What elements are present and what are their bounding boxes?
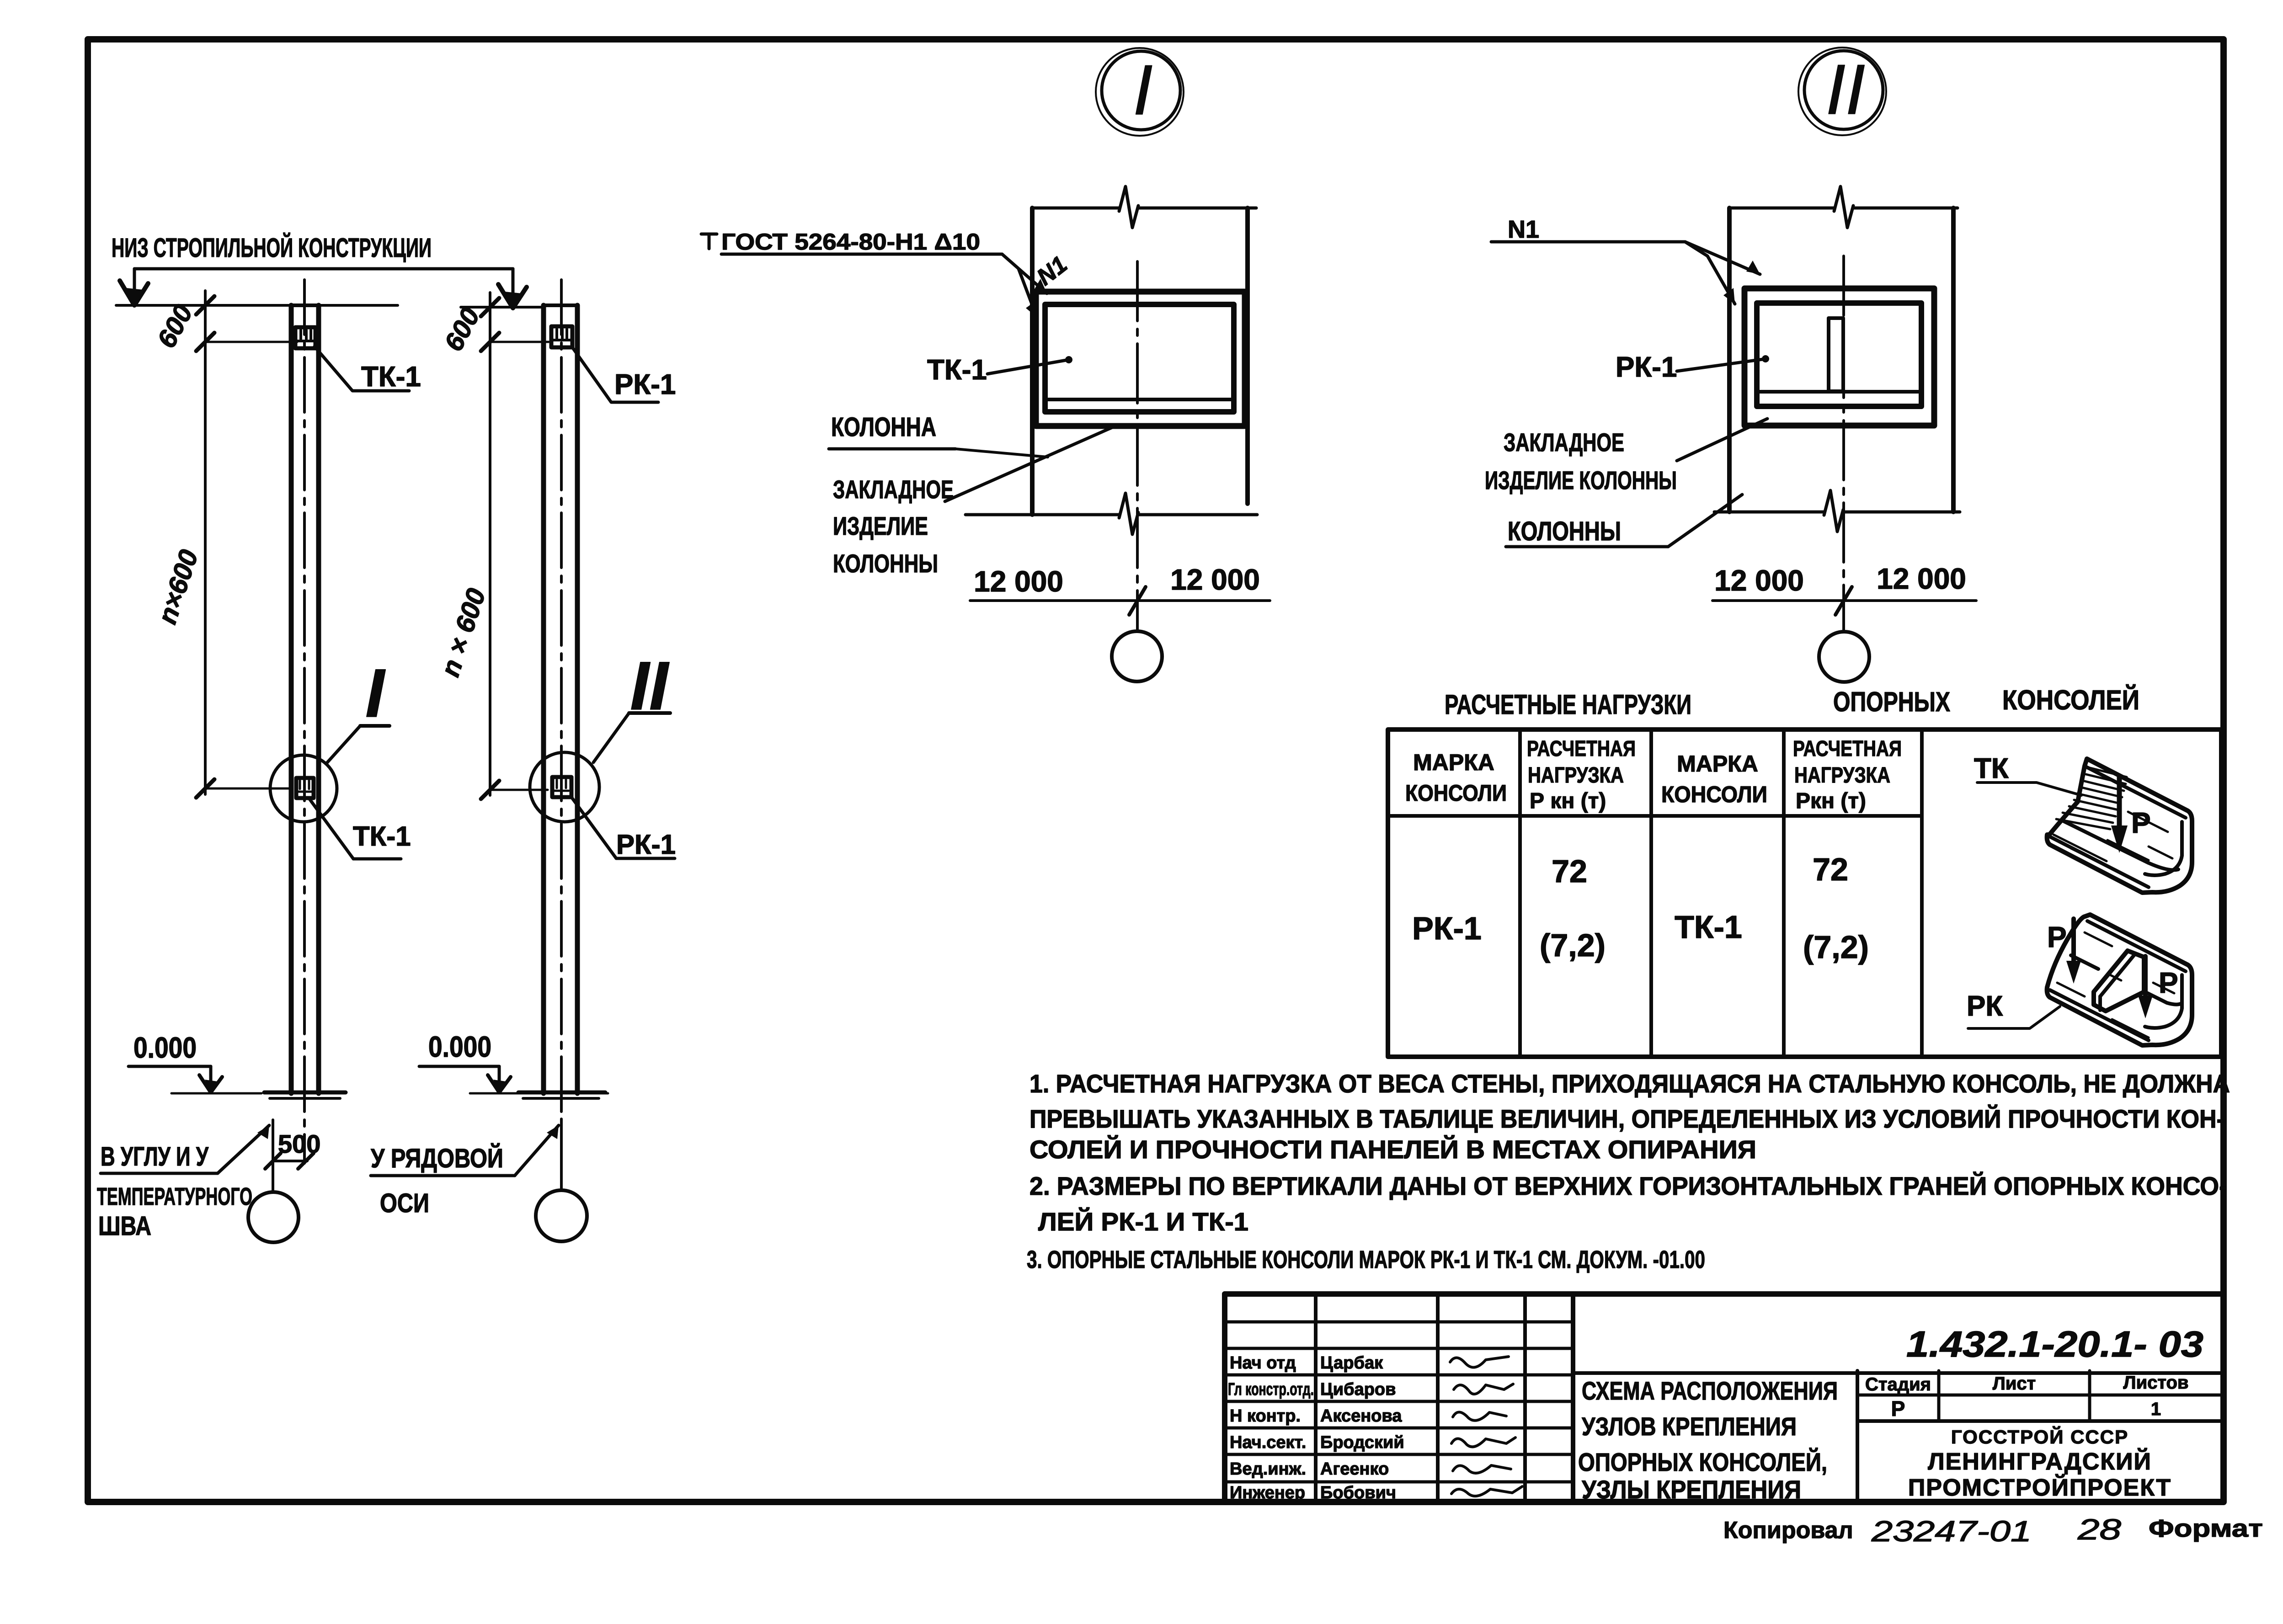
svg-text:ТК-1: ТК-1 bbox=[353, 821, 411, 852]
TK load arrow bbox=[2117, 777, 2122, 841]
PK isometric sketch bbox=[2047, 915, 2192, 1045]
centerline detail I bbox=[1136, 261, 1139, 631]
detail II column edges bbox=[1727, 208, 1732, 512]
level line top col2 bbox=[461, 306, 542, 309]
label У рядовой оси bbox=[371, 1144, 503, 1218]
svg-text:I: I bbox=[365, 655, 386, 731]
svg-text:ЛЕЙ РК-1 И ТК-1: ЛЕЙ РК-1 И ТК-1 bbox=[1038, 1207, 1248, 1236]
extension to lower node bbox=[205, 788, 290, 790]
0.000 col1 bbox=[133, 1031, 197, 1064]
axis dim 12000 / 12000 bbox=[970, 599, 1270, 602]
svg-text:ИЗДЕЛИЕ КОЛОННЫ: ИЗДЕЛИЕ КОЛОННЫ bbox=[1485, 466, 1677, 495]
svg-text:Копировал: Копировал bbox=[1723, 1517, 1853, 1544]
PK load arrows bbox=[2071, 919, 2076, 974]
detail I column edges bbox=[1030, 208, 1035, 515]
axis dim 12000 12000 II bbox=[1712, 599, 1976, 602]
svg-text:I: I bbox=[1133, 50, 1152, 129]
svg-text:РК-1: РК-1 bbox=[1616, 351, 1677, 383]
svg-text:3. ОПОРНЫЕ СТАЛЬНЫЕ КОНСОЛИ МА: 3. ОПОРНЫЕ СТАЛЬНЫЕ КОНСОЛИ МАРОК РК-1 И… bbox=[1027, 1246, 1705, 1273]
label Колонны II bbox=[1508, 516, 1621, 546]
svg-text:72: 72 bbox=[1813, 852, 1848, 887]
svg-text:УЗЛЫ КРЕПЛЕНИЯ: УЗЛЫ КРЕПЛЕНИЯ bbox=[1582, 1475, 1801, 1504]
PK rib bbox=[2094, 951, 2144, 1011]
detail circle I on col1 bbox=[270, 755, 337, 822]
svg-text:Инженер: Инженер bbox=[1230, 1483, 1305, 1502]
arrow right bbox=[498, 284, 527, 308]
PK rib slot bbox=[1829, 318, 1843, 391]
gosstroy bbox=[1908, 1426, 2171, 1501]
svg-text:НИЗ СТРОПИЛЬНОЙ КОНСТРУКЦИИ: НИЗ СТРОПИЛЬНОЙ КОНСТРУКЦИИ bbox=[112, 233, 432, 263]
console PK-1 front view bbox=[1757, 303, 1921, 406]
table data bbox=[1412, 852, 1869, 965]
svg-text:НАГРУЗКА: НАГРУЗКА bbox=[1794, 763, 1890, 788]
label TK-1 detail bbox=[927, 354, 987, 386]
TK label bbox=[1974, 753, 2009, 784]
label Закладное изделие колонны bbox=[833, 475, 954, 578]
PK label bbox=[1967, 990, 2003, 1022]
svg-text:1: 1 bbox=[2151, 1399, 2161, 1419]
svg-text:ГОСТ 5264-80-Н1 Δ10: ГОСТ 5264-80-Н1 Δ10 bbox=[721, 229, 980, 255]
svg-text:НАГРУЗКА: НАГРУЗКА bbox=[1528, 763, 1624, 788]
label PK-1 detail bbox=[1616, 351, 1677, 383]
TK isometric sketch bbox=[2047, 759, 2192, 893]
embedded plate detail I bbox=[1036, 292, 1245, 426]
axis below col2 bbox=[560, 1119, 563, 1190]
grid circle col1 bbox=[248, 1192, 299, 1242]
TK hatching bbox=[2054, 768, 2172, 879]
svg-text:РК: РК bbox=[1967, 990, 2003, 1022]
svg-text:УЗЛОВ КРЕПЛЕНИЯ: УЗЛОВ КРЕПЛЕНИЯ bbox=[1582, 1412, 1797, 1441]
roles and names bbox=[1228, 1353, 1404, 1502]
svg-text:23247-01: 23247-01 bbox=[1871, 1515, 2032, 1548]
svg-text:Лист: Лист bbox=[1993, 1374, 2036, 1394]
svg-text:У РЯДОВОЙ: У РЯДОВОЙ bbox=[371, 1144, 503, 1173]
svg-text:Листов: Листов bbox=[2123, 1373, 2189, 1393]
svg-text:2. РАЗМЕРЫ ПО ВЕРТИКАЛИ ДАНЫ О: 2. РАЗМЕРЫ ПО ВЕРТИКАЛИ ДАНЫ ОТ ВЕРХНИХ … bbox=[1029, 1171, 2227, 1200]
svg-text:ПРЕВЫШАТЬ УКАЗАННЫХ В ТАБЛИЦЕ: ПРЕВЫШАТЬ УКАЗАННЫХ В ТАБЛИЦЕ ВЕЛИЧИН, О… bbox=[1029, 1104, 2224, 1133]
svg-text:РК-1: РК-1 bbox=[616, 829, 676, 860]
svg-text:КОНСОЛИ: КОНСОЛИ bbox=[1405, 780, 1507, 806]
svg-text:12 000: 12 000 bbox=[1714, 564, 1804, 597]
svg-text:МАРКА: МАРКА bbox=[1413, 750, 1494, 775]
label II bbox=[630, 647, 670, 724]
svg-text:ЗАКЛАДНОЕ: ЗАКЛАДНОЕ bbox=[833, 475, 954, 504]
ticks col1 bbox=[196, 296, 214, 314]
svg-text:ТК: ТК bbox=[1974, 753, 2009, 784]
0.000 col2 bbox=[428, 1030, 491, 1063]
label TK-1 bottom bbox=[353, 821, 411, 852]
PK hatch bbox=[2057, 932, 2174, 1038]
axis line col1 below ground bbox=[272, 1120, 274, 1192]
svg-text:Гл констр.отд.: Гл констр.отд. bbox=[1228, 1380, 1314, 1399]
console TK-1 front view bbox=[1045, 304, 1234, 412]
500 dim bbox=[273, 1160, 307, 1162]
svg-text:12 000: 12 000 bbox=[1170, 563, 1260, 596]
svg-text:72: 72 bbox=[1552, 853, 1587, 889]
left section rows bbox=[1225, 1320, 1573, 1324]
svg-text:Вед.инж.: Вед.инж. bbox=[1230, 1459, 1306, 1479]
svg-text:В УГЛУ И У: В УГЛУ И У bbox=[101, 1142, 209, 1171]
svg-text:Р: Р bbox=[2131, 806, 2151, 839]
svg-text:РАСЧЕТНЫЕ НАГРУЗКИ: РАСЧЕТНЫЕ НАГРУЗКИ bbox=[1445, 689, 1691, 720]
svg-text:КОЛОННЫ: КОЛОННЫ bbox=[833, 549, 938, 578]
stadia list listov bbox=[1865, 1373, 2189, 1421]
svg-text:РАСЧЕТНАЯ: РАСЧЕТНАЯ bbox=[1527, 737, 1636, 761]
svg-text:ОПОРНЫХ КОНСОЛЕЙ,: ОПОРНЫХ КОНСОЛЕЙ, bbox=[1578, 1448, 1827, 1476]
svg-text:ТК-1: ТК-1 bbox=[1675, 909, 1742, 945]
svg-text:КОНСОЛИ: КОНСОЛИ bbox=[1661, 782, 1767, 807]
embedded plate detail II bbox=[1744, 288, 1934, 426]
svg-text:РК-1: РК-1 bbox=[1412, 911, 1482, 946]
table title bbox=[1445, 685, 2139, 720]
svg-text:СОЛЕЙ И ПРОЧНОСТИ ПАНЕЛЕЙ В МЕ: СОЛЕЙ И ПРОЧНОСТИ ПАНЕЛЕЙ В МЕСТАХ ОПИРА… bbox=[1029, 1135, 1756, 1164]
label В углу и у температурного шва bbox=[97, 1142, 252, 1241]
svg-text:0.000: 0.000 bbox=[133, 1031, 197, 1064]
signatures bbox=[1450, 1357, 1522, 1496]
svg-text:II: II bbox=[1826, 50, 1865, 129]
svg-text:1. РАСЧЕТНАЯ НАГРУЗКА ОТ ВЕСА: 1. РАСЧЕТНАЯ НАГРУЗКА ОТ ВЕСА СТЕНЫ, ПРИ… bbox=[1029, 1069, 2230, 1098]
svg-text:ЗАКЛАДНОЕ: ЗАКЛАДНОЕ bbox=[1504, 428, 1624, 457]
N1 mark bbox=[1032, 251, 1072, 291]
label Колонна bbox=[831, 412, 936, 442]
svg-text:Стадия: Стадия bbox=[1865, 1374, 1931, 1395]
svg-text:Цибаров: Цибаров bbox=[1320, 1380, 1396, 1399]
table header texts bbox=[1405, 737, 1902, 813]
svg-text:1.432.1-20.1- 03: 1.432.1-20.1- 03 bbox=[1906, 1324, 2203, 1364]
svg-text:РАСЧЕТНАЯ: РАСЧЕТНАЯ bbox=[1793, 737, 1902, 761]
level line top col1 bbox=[116, 304, 398, 307]
grid circle detail I bbox=[1112, 631, 1162, 682]
leader PK-1 bbox=[572, 347, 658, 402]
leader TK-1 top bbox=[315, 346, 409, 391]
centerline detail II bbox=[1842, 256, 1845, 631]
svg-text:ОСИ: ОСИ bbox=[380, 1188, 429, 1218]
top edge line with break bbox=[1032, 207, 1119, 210]
bottom edge line with break bbox=[965, 513, 1119, 516]
svg-text:ТЕМПЕРАТУРНОГО: ТЕМПЕРАТУРНОГО bbox=[97, 1183, 252, 1210]
left section verticals bbox=[1314, 1294, 1318, 1502]
svg-text:Формат: Формат bbox=[2149, 1515, 2263, 1542]
leader line from title bbox=[134, 267, 513, 271]
svg-text:МАРКА: МАРКА bbox=[1677, 751, 1758, 777]
svg-text:РК-1: РК-1 bbox=[614, 369, 676, 400]
svg-text:Нач.сект.: Нач.сект. bbox=[1230, 1433, 1306, 1452]
label Закладное изделие колонны II bbox=[1485, 428, 1677, 495]
svg-text:ЛЕНИНГРАДСКИЙ: ЛЕНИНГРАДСКИЙ bbox=[1928, 1448, 2152, 1475]
svg-text:Н контр.: Н контр. bbox=[1230, 1406, 1301, 1426]
svg-text:ГОССТРОЙ СССР: ГОССТРОЙ СССР bbox=[1951, 1426, 2128, 1448]
svg-text:N1: N1 bbox=[1508, 216, 1539, 243]
svg-text:ПРОМСТРОЙПРОЕКТ: ПРОМСТРОЙПРОЕКТ bbox=[1908, 1474, 2171, 1501]
svg-text:12 000: 12 000 bbox=[974, 565, 1063, 598]
TK-1 console element top col1 bbox=[295, 327, 315, 348]
svg-text:28: 28 bbox=[2077, 1513, 2122, 1546]
label I bbox=[365, 655, 386, 731]
PK-1 element top col2 bbox=[551, 326, 572, 347]
svg-text:Агеенко: Агеенко bbox=[1320, 1459, 1389, 1479]
doc number bbox=[1906, 1324, 2203, 1364]
svg-text:Р: Р bbox=[2159, 966, 2178, 999]
weld label bbox=[701, 234, 717, 249]
600 text col1 bbox=[151, 300, 204, 628]
svg-text:КОНСОЛЕЙ: КОНСОЛЕЙ bbox=[2002, 685, 2139, 715]
svg-text:Ркн (т): Ркн (т) bbox=[1796, 789, 1866, 813]
svg-text:0.000: 0.000 bbox=[428, 1030, 491, 1063]
ground line col1 bbox=[171, 1092, 261, 1095]
svg-text:(7,2): (7,2) bbox=[1803, 929, 1869, 965]
right section grid bbox=[1573, 1371, 2223, 1375]
label PK-1 bottom bbox=[616, 829, 676, 860]
svg-text:12 000: 12 000 bbox=[1877, 562, 1966, 595]
svg-text:Нач отд: Нач отд bbox=[1230, 1353, 1296, 1373]
dim line col1 bbox=[204, 291, 207, 794]
centerline col1 bbox=[303, 280, 306, 1163]
arrow left bbox=[120, 281, 148, 305]
svg-text:Царбак: Царбак bbox=[1320, 1353, 1383, 1373]
svg-text:Р: Р bbox=[2047, 921, 2067, 953]
label N1 detail II bbox=[1508, 216, 1539, 243]
svg-text:КОЛОННЫ: КОЛОННЫ bbox=[1508, 516, 1621, 546]
svg-text:ТК-1: ТК-1 bbox=[927, 354, 987, 386]
column edges bbox=[289, 305, 294, 1093]
svg-text:ТК-1: ТК-1 bbox=[361, 361, 421, 393]
svg-text:500: 500 bbox=[278, 1129, 320, 1158]
extension line 600 top (to column) bbox=[205, 341, 297, 343]
svg-text:Р: Р bbox=[1891, 1397, 1905, 1421]
svg-text:Бродский: Бродский bbox=[1320, 1433, 1404, 1452]
drawing title bbox=[1578, 1376, 1838, 1504]
svg-text:ШВА: ШВА bbox=[98, 1211, 151, 1241]
svg-text:Аксенова: Аксенова bbox=[1320, 1406, 1402, 1426]
detail circle II col2 bbox=[530, 752, 599, 822]
svg-text:Р кн (т): Р кн (т) bbox=[1530, 789, 1606, 813]
svg-text:(7,2): (7,2) bbox=[1540, 927, 1606, 963]
dim line col2 bbox=[489, 293, 491, 795]
svg-text:КОЛОННА: КОЛОННА bbox=[831, 412, 936, 442]
svg-text:Бобович: Бобович bbox=[1320, 1483, 1396, 1502]
detail I reference circle bbox=[1096, 48, 1184, 136]
svg-text:СХЕМА РАСПОЛОЖЕНИЯ: СХЕМА РАСПОЛОЖЕНИЯ bbox=[1582, 1376, 1838, 1405]
svg-text:ОПОРНЫХ: ОПОРНЫХ bbox=[1833, 687, 1950, 717]
column K2 (PK) bbox=[541, 305, 546, 1093]
svg-text:ИЗДЕЛИЕ: ИЗДЕЛИЕ bbox=[833, 511, 928, 540]
title: Низ стропильной конструкции bbox=[112, 233, 432, 263]
ground line col2 bbox=[470, 1092, 608, 1095]
table grid bbox=[1388, 729, 2221, 1057]
bottom note bbox=[1723, 1513, 2263, 1548]
